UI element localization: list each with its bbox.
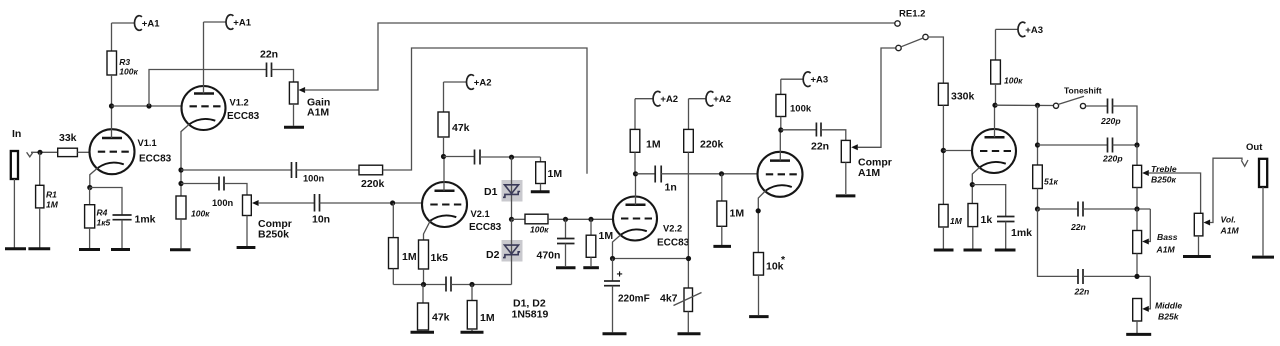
svg-text:22n: 22n — [1074, 287, 1090, 297]
wire cap to D1 node — [480, 156, 541, 158]
op tube5 circle — [758, 152, 803, 197]
power +A3 (100k tube5) — [781, 72, 828, 87]
wire 22n to Compr A1M top — [821, 130, 846, 141]
wire 100n to 220k — [296, 169, 359, 171]
wire plate node to 1n — [636, 173, 656, 175]
wire 22n to middle node — [1083, 275, 1150, 277]
tube5 plate — [770, 130, 790, 161]
resistor 330k — [938, 83, 974, 204]
svg-text:A1M: A1M — [1220, 226, 1240, 236]
capacitor 100n (series) — [292, 162, 325, 184]
wire 22n upper rail — [1038, 208, 1079, 210]
capacitor 10n — [312, 194, 330, 226]
wire V2.2 cathode rail — [613, 258, 689, 260]
svg-text:1mk: 1mk — [135, 214, 156, 226]
potentiometer Bass A1M — [1133, 209, 1178, 276]
ground (1M V2.2) — [583, 266, 599, 269]
ground (47k) — [411, 331, 435, 334]
output jack J2 — [1259, 159, 1267, 256]
svg-text:10n: 10n — [312, 214, 330, 226]
potentiometer Compr A1M — [841, 140, 892, 194]
potentiometer Gain A1M — [289, 82, 330, 126]
wire 22n tap riser — [149, 70, 267, 107]
svg-text:100к: 100к — [1004, 76, 1023, 86]
V1.2 cathode — [181, 119, 215, 196]
switch Toneshift contact L — [1053, 103, 1058, 108]
svg-text:220mF: 220mF — [618, 294, 650, 305]
switch Toneshift arm — [1058, 96, 1084, 104]
resistor 1M (V2.2 plate) — [630, 99, 661, 174]
node 470n junction — [563, 217, 568, 222]
node 22n tap junction — [146, 103, 151, 108]
capacitor 22n (tone lower) — [1074, 269, 1090, 297]
ground (Vol pot) — [1183, 255, 1211, 258]
capacitor 470n — [537, 219, 575, 266]
wire 220k to feedback riser — [383, 48, 587, 174]
resistor 100k (V1.2 cathode) — [176, 196, 210, 248]
ground (Middle pot) — [1126, 333, 1151, 336]
resistor 1M (tube6 grid) — [939, 204, 963, 248]
wire 220p to treble node — [1113, 144, 1138, 146]
svg-text:1к5: 1к5 — [97, 218, 111, 228]
svg-text:A1M: A1M — [858, 167, 880, 179]
tube6 grid dashes — [980, 150, 1011, 152]
potentiometer Middle B25k — [1133, 299, 1183, 334]
node tube5 plate junction — [778, 127, 783, 132]
svg-text:A1M: A1M — [307, 107, 329, 119]
svg-text:R1: R1 — [46, 190, 57, 200]
capacitor 220p (upper) — [1100, 99, 1121, 127]
svg-text:+A1: +A1 — [233, 17, 251, 28]
diode D1 1N5819 — [484, 157, 523, 219]
op V1.1 tube circle — [90, 129, 135, 174]
svg-text:Vol.: Vol. — [1221, 215, 1236, 225]
svg-text:+A3: +A3 — [811, 75, 829, 86]
node input/R1 junction — [37, 150, 42, 155]
op V2.2 tube circle — [613, 197, 657, 241]
svg-text:47k: 47k — [432, 312, 450, 324]
svg-text:220p: 220p — [1100, 116, 1121, 126]
svg-text:1N5819: 1N5819 — [512, 309, 549, 321]
resistor 100k (tube6 plate) — [991, 29, 1023, 105]
wire treble wiper to vol — [1149, 173, 1201, 213]
ground (Gain pot) — [284, 126, 304, 129]
potentiometer Compr B250k — [243, 195, 292, 246]
ground (Compr pot) — [237, 246, 256, 249]
ground (1mk tube6) — [995, 249, 1016, 252]
power +A2 (220k) — [689, 91, 732, 106]
node V1.1 cathode junction — [87, 185, 92, 190]
svg-text:Out: Out — [1246, 142, 1263, 153]
tube6 plate — [985, 105, 1005, 137]
svg-text:100к: 100к — [119, 67, 138, 77]
wire Compr wiper to 10n — [258, 202, 315, 204]
wire 100k to V2.2 grid — [548, 218, 613, 220]
capacitor 220mF electrolytic — [604, 259, 650, 333]
wire input to 33k — [31, 151, 58, 153]
node tube5 grid 1M junction — [719, 171, 724, 176]
V1.1 grid dashes — [98, 151, 129, 153]
node tube5 cathode dot — [756, 208, 761, 213]
power +A1 (R3) — [112, 16, 161, 31]
relay RE1.2 contact 1 — [895, 21, 900, 26]
wire cathode to 1mk cap — [90, 188, 122, 216]
ground (1M) — [461, 331, 484, 334]
capacitor 22n (tone upper) — [1070, 202, 1086, 233]
svg-text:V2.2: V2.2 — [663, 224, 682, 234]
node 1M V2.2 grid junction — [588, 217, 593, 222]
svg-text:1M: 1M — [599, 230, 614, 242]
svg-text:+A3: +A3 — [1025, 25, 1043, 36]
svg-text:+A2: +A2 — [474, 77, 492, 88]
node 4k7 junction — [686, 256, 691, 261]
svg-text:ECC83: ECC83 — [657, 238, 690, 249]
node V1.2 cathode junction 2 — [178, 181, 183, 186]
V1.2 grid dashes — [190, 105, 221, 107]
resistor 47k (to ground) — [418, 285, 450, 332]
svg-text:470n: 470n — [537, 250, 561, 262]
wire cathode to 100n — [181, 169, 292, 171]
svg-text:D1: D1 — [484, 186, 498, 198]
resistor 47k (V2.1 plate) — [438, 82, 470, 157]
wire vol wiper to out jack — [1210, 158, 1242, 222]
capacitor 1n — [655, 166, 677, 194]
wire 330k to tube6 grid — [943, 150, 972, 152]
V2.1 cathode — [424, 215, 457, 240]
wire 100n to Compr pot top — [224, 184, 247, 196]
wire Gain wiper to relay rail — [305, 23, 895, 90]
resistor R1 1M — [36, 152, 59, 247]
resistor 100k (D network) — [525, 214, 549, 234]
V2.1 plate — [435, 157, 455, 191]
wire cathode to 1mk — [972, 185, 1005, 217]
V2.2 cathode — [613, 229, 647, 258]
svg-text:+A2: +A2 — [660, 94, 678, 105]
tube6 cathode — [972, 162, 1006, 204]
diode D2 1N5819 — [486, 219, 523, 284]
node V2.1 plate junction — [441, 154, 446, 159]
wire 33k to V1.1 grid — [77, 151, 89, 153]
power +A3 (tube6) — [996, 22, 1044, 37]
svg-text:Toneshift: Toneshift — [1064, 86, 1102, 96]
node tube6 cathode junction — [970, 182, 975, 187]
svg-text:ECC83: ECC83 — [139, 154, 172, 165]
svg-text:100n: 100n — [303, 174, 325, 184]
svg-text:47k: 47k — [452, 122, 470, 134]
relay RE1.2 arm — [901, 38, 923, 47]
power +A2 (47k) — [444, 75, 492, 90]
svg-text:220k: 220k — [361, 178, 385, 190]
resistor 33k — [58, 132, 78, 157]
wire switch to 220p — [1086, 105, 1108, 107]
svg-text:Middle: Middle — [1155, 301, 1182, 311]
svg-text:B250k: B250k — [258, 229, 289, 241]
resistor 1M (to ground) — [467, 285, 495, 332]
svg-text:V1.2: V1.2 — [230, 98, 249, 108]
resistor 220k (+A2 to cathode) — [684, 99, 724, 288]
resistor R3 100k — [107, 23, 138, 106]
svg-text:D2: D2 — [486, 249, 500, 261]
node R3/V1.1 plate junction — [109, 103, 114, 108]
wire cathode rail — [393, 284, 446, 286]
svg-text:In: In — [12, 128, 21, 140]
relay RE1.2 contact 3 — [896, 45, 901, 50]
wire plate to 22n — [781, 129, 817, 131]
wire plate to cap — [444, 156, 475, 158]
op V2.1 tube circle — [422, 182, 467, 227]
capacitor 100n (to Compr pot) — [212, 177, 234, 209]
node 1M right junction — [469, 282, 474, 287]
svg-text:220k: 220k — [700, 139, 724, 151]
ground (1M tube5) — [713, 245, 731, 248]
resistor 1M (D1 node) — [536, 157, 563, 191]
V1.2 plate — [194, 22, 214, 94]
op tube6 circle — [972, 129, 1016, 173]
svg-text:+A2: +A2 — [713, 94, 731, 105]
wire down from 220p node — [1038, 209, 1079, 276]
resistor 1k (tube6 cathode) — [968, 204, 992, 249]
capacitor 22n (V1.2) — [260, 49, 278, 78]
svg-text:1M: 1M — [548, 168, 563, 180]
wire 51k branch — [1037, 105, 1039, 165]
svg-text:R4: R4 — [97, 208, 108, 218]
relay RE1.2 contact 2 — [923, 34, 928, 39]
svg-text:220p: 220p — [1102, 154, 1123, 164]
capacitor (cathode rail series) — [446, 277, 451, 292]
wire 22n to Gain pot — [272, 70, 294, 83]
wire cathode branch 2 to 100n — [181, 183, 219, 185]
svg-text:1M: 1M — [46, 200, 59, 210]
ground (1k) — [964, 249, 982, 252]
svg-text:A1M: A1M — [1156, 245, 1176, 255]
wire middle wiper drop — [1149, 276, 1151, 309]
ground (100k V1.2) — [170, 248, 191, 251]
ground (1M D1) — [531, 190, 550, 193]
tube5 grid dashes — [766, 173, 797, 175]
svg-text:B25k: B25k — [1158, 312, 1180, 322]
op V1.2 tube circle — [182, 86, 226, 130]
node V2.2 plate junction — [633, 171, 638, 176]
node bass bottom junction — [1134, 274, 1139, 279]
resistor 100k (tube5 plate) — [776, 79, 812, 130]
ground (Compr A1M) — [836, 194, 856, 197]
svg-text:1M: 1M — [480, 312, 495, 324]
svg-text:Bass: Bass — [1157, 232, 1178, 242]
svg-text:100к: 100к — [191, 209, 210, 219]
node treble bottom junction — [1134, 206, 1139, 211]
svg-text:100к: 100к — [530, 225, 549, 235]
ground (1M tube6) — [934, 249, 954, 252]
svg-text:4k7: 4k7 — [660, 293, 678, 305]
svg-text:B250к: B250к — [1151, 175, 1177, 185]
resistor 1k5 (V2.1 cathode) — [419, 240, 449, 285]
svg-text:1k: 1k — [981, 214, 993, 226]
svg-text:1k5: 1k5 — [431, 252, 449, 264]
svg-text:1M: 1M — [730, 208, 745, 220]
node 220mF junction — [610, 256, 615, 261]
ground (R1) — [28, 247, 50, 250]
node 51k/22n junction — [1035, 206, 1040, 211]
node D1/D2 junction — [509, 217, 514, 222]
wire rail cap to D2 bottom — [451, 284, 512, 286]
resistor 1M (V2.2 grid) — [586, 219, 613, 266]
potentiometer Vol A1M — [1194, 213, 1239, 255]
wire 10n to V2.1 grid — [320, 202, 423, 204]
resistor R4 1k5 — [85, 188, 111, 249]
wire 220p lower rail — [1038, 144, 1108, 146]
resistor 1M (tube5 grid) — [717, 174, 744, 245]
node 51k branch junction — [1035, 103, 1040, 108]
V1.1 plate — [102, 106, 122, 138]
capacitor 1mk (tube6) — [997, 217, 1032, 249]
svg-text:ECC83: ECC83 — [227, 111, 260, 122]
V2.1 grid dashes — [430, 203, 461, 205]
svg-text:22n: 22n — [811, 141, 829, 153]
ground (470n) — [556, 266, 576, 269]
node tube6 grid junction — [941, 148, 946, 153]
node tube6 plate junction — [992, 103, 997, 108]
capacitor 1mk — [113, 214, 156, 249]
rheostat 4k7 — [660, 288, 702, 332]
node V2.1 grid junction — [390, 200, 395, 205]
svg-text:100k: 100k — [790, 104, 812, 115]
svg-text:51к: 51к — [1044, 177, 1058, 187]
svg-text:1M: 1M — [646, 139, 661, 151]
capacitor 220p (lower) — [1102, 138, 1123, 164]
label D1, D2 1N5819 — [512, 298, 549, 321]
resistor 1M (V2.1 grid leak) — [389, 203, 417, 285]
wire relay to 330k — [928, 37, 943, 83]
ground (220mF) — [603, 332, 627, 335]
wire Compr A1M wiper to relay — [858, 48, 896, 147]
ground (4k7) — [678, 332, 701, 335]
ground (R4) — [79, 248, 100, 251]
power +A1 (V1.2 plate) — [204, 15, 252, 30]
output tip contact V — [1241, 160, 1248, 166]
input jack J1 — [11, 151, 18, 248]
tube5 cathode — [758, 185, 792, 252]
potentiometer Treble B250k — [1133, 145, 1177, 209]
resistor 220k (series) — [359, 165, 385, 190]
svg-text:1M: 1M — [402, 251, 417, 263]
svg-text:1n: 1n — [665, 182, 677, 194]
wire 220p to treble riser — [1113, 106, 1138, 145]
V2.2 grid dashes — [621, 217, 652, 219]
ground (10k) — [749, 315, 769, 318]
svg-text:V1.1: V1.1 — [138, 138, 157, 148]
input tip contact V — [27, 152, 34, 157]
resistor 51k — [1033, 165, 1059, 209]
node 1k5/47k junction — [421, 282, 426, 287]
power +A2 (1M V2.2) — [635, 91, 678, 106]
wire 22n to bass node — [1083, 208, 1150, 210]
svg-text:+A1: +A1 — [142, 18, 160, 29]
svg-text:R3: R3 — [119, 57, 130, 67]
wire 1n to tube5 grid — [661, 173, 757, 175]
V2.2 plate — [626, 174, 646, 205]
wire bass wiper drop — [1149, 209, 1151, 242]
svg-text:1mk: 1mk — [1011, 227, 1032, 239]
capacitor (V2.1 plate coupling) — [475, 150, 481, 165]
ground (1mk) — [111, 248, 130, 251]
node treble top junction — [1134, 142, 1139, 147]
ground (input jack) — [5, 247, 26, 250]
node 220p lower junction — [1035, 142, 1040, 147]
svg-text:22n: 22n — [1070, 222, 1086, 232]
V1.1 cathode — [90, 163, 124, 188]
svg-text:1M: 1M — [950, 216, 963, 226]
ground (output jack) — [1252, 256, 1274, 259]
node V1.2 cathode junction 1 — [178, 167, 183, 172]
switch Toneshift contact R — [1080, 103, 1085, 108]
capacitor 22n (tube5) — [811, 123, 829, 153]
svg-text:33k: 33k — [59, 132, 77, 144]
wire plate node to V1.2 grid — [112, 105, 182, 107]
svg-text:ECC83: ECC83 — [469, 222, 502, 233]
wire plate rail to toneshift — [995, 104, 1053, 106]
svg-text:RE1.2: RE1.2 — [899, 9, 925, 20]
wire D-node to 100k — [512, 218, 526, 220]
svg-text:330k: 330k — [951, 91, 975, 103]
node D1 top junction — [509, 155, 514, 160]
resistor 10k (tube5 cathode) — [754, 253, 787, 316]
svg-text:+: + — [617, 269, 623, 281]
svg-text:V2.1: V2.1 — [471, 209, 490, 219]
svg-text:22n: 22n — [260, 49, 278, 61]
svg-text:100n: 100n — [212, 198, 234, 208]
